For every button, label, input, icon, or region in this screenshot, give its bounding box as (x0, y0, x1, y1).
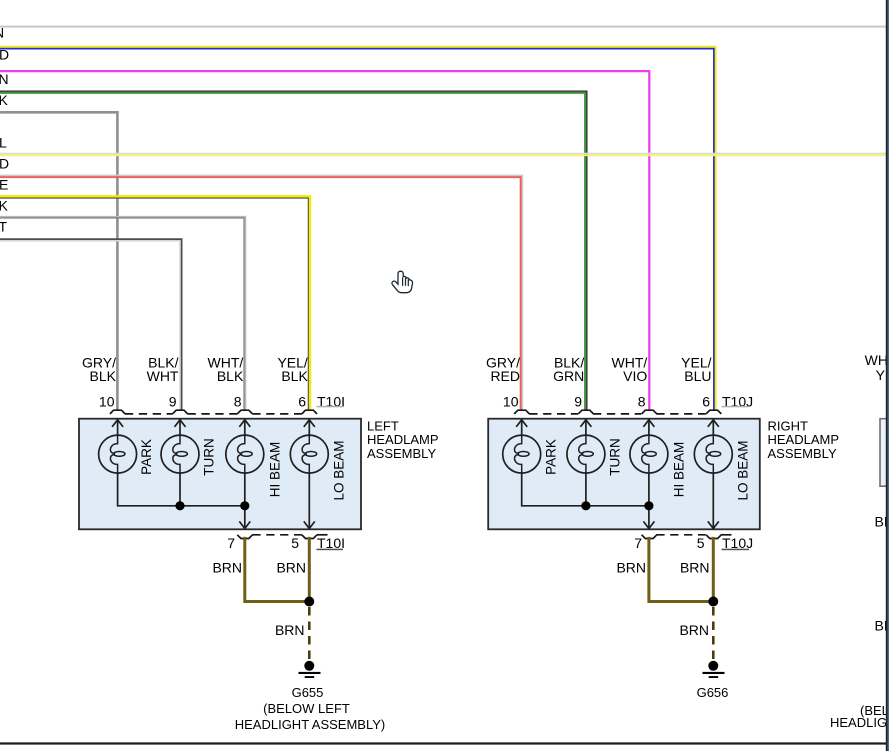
rotated bulb labels right box (543, 438, 750, 500)
svg-text:9: 9 (169, 394, 177, 410)
text group: left box wire labels (82, 355, 345, 410)
wire WHT/VIO (to right pin 8) (0, 71, 649, 410)
bulb LO BEAM left circle (290, 435, 328, 473)
svg-text:VIO: VIO (623, 368, 647, 384)
connector bump pin 8 right (642, 410, 657, 414)
svg-text:T10I: T10I (317, 535, 345, 551)
bulb LO BEAM right filament (706, 435, 713, 473)
right edge cut-off label WH / Y (865, 352, 888, 383)
wire PARK right down to collector (522, 473, 649, 506)
svg-text:G655: G655 (292, 685, 324, 700)
svg-text:BLU: BLU (684, 368, 711, 384)
rotated bulb labels left box (139, 438, 347, 500)
bulb PARK right: stem and up arrow (521, 420, 523, 436)
svg-text:Y: Y (876, 367, 886, 383)
wire LO BEAM right down to pin 5 with arrow (712, 473, 714, 528)
bulb HI BEAM left filament (238, 435, 245, 473)
svg-text:LO BEAM: LO BEAM (736, 440, 751, 500)
bulb HI BEAM right: stem and up arrow (648, 420, 650, 436)
label RIGHT HEADLAMP ASSEMBLY (768, 419, 840, 461)
wire HI BEAM right down to pin 7 with arrow (648, 473, 650, 528)
svg-text:HI BEAM: HI BEAM (267, 442, 282, 498)
wire BRN left pin 5 (308, 537, 311, 602)
BRN labels right (616, 560, 709, 638)
svg-text:GRN: GRN (553, 368, 584, 384)
svg-text:PARK: PARK (139, 439, 154, 475)
svg-text:8: 8 (234, 394, 242, 410)
svg-text:7: 7 (227, 535, 235, 551)
svg-text:K: K (0, 198, 9, 214)
bulb HI BEAM left: stem and up arrow (244, 420, 246, 436)
bulb PARK left filament (110, 435, 117, 473)
connector bump pin 10 left (110, 410, 125, 414)
wire TURN left down to collector (179, 473, 181, 506)
connector bump pin 8 left (237, 410, 252, 414)
connector bump pin 6 left (302, 410, 317, 414)
svg-text:6: 6 (298, 394, 306, 410)
bulb PARK right filament (515, 435, 522, 473)
right box top connector T10J dashed line (514, 410, 721, 414)
mouse cursor (hand pointer) (392, 271, 413, 292)
bulb LO BEAM right: stem and up arrow (712, 420, 714, 436)
connector bump pin 5 left (302, 535, 317, 539)
wire BRN left pin 7 elbow (245, 537, 307, 602)
junction dot right TURN/collector (581, 501, 590, 510)
svg-text:BRN: BRN (679, 622, 709, 638)
wire LO BEAM left down to pin 5 with arrow (308, 473, 310, 528)
svg-text:N: N (0, 71, 9, 87)
svg-text:HI BEAM: HI BEAM (671, 442, 686, 498)
svg-text:10: 10 (503, 394, 519, 410)
wire GRY/BLK (to left pin 10) (0, 112, 117, 410)
wire BRN dashed to G655 (308, 607, 311, 660)
bulb LO BEAM left: stem and up arrow (308, 420, 310, 436)
wire BLK/GRN (to right pin 9) (0, 91, 587, 410)
bulb TURN right: stem and up arrow (585, 420, 587, 436)
bulb TURN left filament (173, 435, 180, 473)
svg-text:G656: G656 (697, 685, 729, 700)
underline T10J bottom (722, 549, 750, 551)
svg-text:10: 10 (99, 394, 115, 410)
connector bump pin 6 right (706, 410, 721, 414)
bulb TURN left: stem and up arrow (179, 420, 181, 436)
svg-text:K: K (0, 92, 9, 108)
svg-text:RED: RED (490, 368, 520, 384)
left headlamp assembly box (79, 419, 361, 530)
svg-text:BRN: BRN (276, 560, 306, 576)
svg-text:5: 5 (697, 535, 705, 551)
svg-text:ASSEMBLY: ASSEMBLY (768, 446, 837, 461)
wire YEL/BLU (to right pin 6) (0, 47, 716, 411)
right box bottom connector T10J dashed line (642, 535, 732, 539)
wire WHT/BLK (to left pin 8) (0, 217, 246, 411)
svg-text:BRN: BRN (212, 560, 242, 576)
svg-text:D: D (0, 156, 9, 172)
partial box at right edge (880, 419, 889, 487)
wire BRN right pin 7 elbow (649, 537, 711, 602)
svg-text:BRN: BRN (616, 560, 646, 576)
bulb PARK right circle (503, 435, 541, 473)
svg-text:T10J: T10J (722, 535, 753, 551)
bottom pin labels left box (227, 535, 345, 551)
BRN labels left (212, 560, 306, 638)
ground label G655 (235, 685, 386, 732)
svg-text:BRN: BRN (680, 560, 710, 576)
wire YEL/BLK (to left pin 6) (0, 196, 310, 410)
junction dot left HI BEAM/collector (240, 501, 249, 510)
underline T10I bottom (317, 549, 344, 551)
svg-text:7: 7 (634, 535, 642, 551)
svg-text:PARK: PARK (543, 439, 558, 475)
svg-text:HEADLIGHT ASSEMBLY): HEADLIGHT ASSEMBLY) (235, 717, 386, 732)
underline T10I top (317, 406, 344, 407)
left box bottom connector T10I dashed line (237, 535, 327, 539)
bulb TURN right filament (579, 435, 586, 473)
lamp internals left box (99, 420, 329, 529)
ground G656 (703, 661, 725, 678)
junction dot right HI BEAM/collector (644, 501, 653, 510)
bulb HI BEAM left circle (226, 435, 264, 473)
underline T10J top (722, 406, 750, 407)
connector bump pin 7 left (237, 535, 252, 539)
junction dot right BRN (708, 597, 718, 607)
label LEFT HEADLAMP ASSEMBLY (367, 419, 439, 461)
svg-text:TURN: TURN (608, 438, 623, 476)
lamp internals right box (503, 420, 733, 529)
junction dot left TURN/collector (175, 501, 184, 510)
wire HI BEAM left down to pin 7 with arrow (244, 473, 246, 528)
svg-text:BLK: BLK (281, 368, 308, 384)
svg-text:HEADLIGH: HEADLIGH (830, 715, 889, 730)
svg-text:N: N (0, 25, 4, 41)
bulb HI BEAM right filament (642, 435, 649, 473)
bulb TURN right circle (567, 435, 605, 473)
wire BLK/WHT (to left pin 9) (0, 239, 182, 410)
svg-text:BRN: BRN (275, 622, 305, 638)
wire TURN right down to collector (585, 473, 587, 506)
wire GRY/RED (to right pin 10) (0, 175, 522, 410)
text group: right box wire labels (486, 355, 753, 410)
svg-text:(BELOW LEFT: (BELOW LEFT (263, 701, 350, 716)
bottom pin labels right box (634, 535, 753, 551)
svg-text:6: 6 (702, 394, 710, 410)
connector bump pin 5 right (706, 535, 721, 539)
wire PARK left down to collector (118, 473, 245, 506)
svg-text:E: E (0, 177, 8, 193)
window bottom border (0, 742, 889, 744)
window right border (886, 0, 888, 751)
svg-text:9: 9 (574, 394, 582, 410)
svg-text:WH: WH (865, 352, 888, 368)
connector bump pin 10 right (514, 410, 529, 414)
junction dot left BRN (304, 597, 314, 607)
bulb TURN left circle (161, 435, 199, 473)
right headlamp assembly box (488, 419, 760, 530)
bulb HI BEAM right circle (630, 435, 668, 473)
connector bump pin 7 right (642, 535, 657, 539)
svg-text:BLK: BLK (90, 368, 117, 384)
svg-text:D: D (0, 47, 9, 63)
wire BRN dashed to G656 (712, 607, 715, 660)
bulb LO BEAM left filament (302, 435, 309, 473)
svg-text:L: L (0, 135, 7, 151)
svg-text:WHT: WHT (147, 368, 179, 384)
ground G655 (299, 661, 321, 678)
svg-text:5: 5 (291, 535, 299, 551)
bulb LO BEAM right circle (694, 435, 732, 473)
svg-text:ASSEMBLY: ASSEMBLY (367, 446, 436, 461)
wire GRY (full width top) (0, 26, 886, 28)
svg-text:LO BEAM: LO BEAM (332, 440, 347, 500)
bulb PARK left circle (99, 435, 137, 473)
connector bump pin 9 right (578, 410, 593, 414)
svg-text:BLK: BLK (217, 368, 244, 384)
wire BRN right pin 5 (712, 537, 715, 602)
wire WHT/YEL (full width) (0, 153, 886, 155)
svg-text:TURN: TURN (202, 438, 217, 476)
left box top connector T10I dashed line (110, 410, 317, 414)
bulb PARK left: stem and up arrow (117, 420, 119, 436)
svg-text:8: 8 (638, 394, 646, 410)
connector bump pin 9 left (173, 410, 188, 414)
svg-text:T: T (0, 219, 8, 235)
